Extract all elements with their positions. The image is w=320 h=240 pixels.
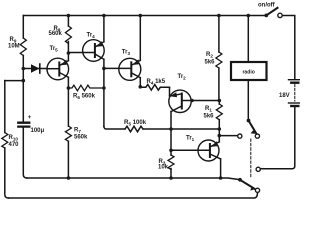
svg-text:18V: 18V [279,93,290,99]
svg-text:R10: R10 [9,135,19,142]
svg-text:560k: 560k [74,135,88,141]
svg-text:+: + [28,115,32,121]
svg-text:Tr4: Tr4 [87,33,96,40]
svg-text:560k: 560k [49,31,63,37]
svg-text:470: 470 [9,142,20,148]
svg-text:R1: R1 [205,106,212,113]
svg-text:Tr2: Tr2 [178,74,187,81]
svg-text:5k6: 5k6 [204,114,215,120]
svg-text:R7: R7 [74,128,81,135]
svg-text:R4 1k5: R4 1k5 [147,79,166,86]
svg-text:Tr5: Tr5 [50,46,59,53]
svg-text:Tr1: Tr1 [186,136,195,143]
svg-text:R6 560k: R6 560k [73,94,96,101]
svg-text:10k: 10k [158,164,169,170]
svg-text:5k6: 5k6 [205,60,216,66]
svg-text:on/off: on/off [258,2,276,8]
svg-text:100μ: 100μ [31,128,45,134]
svg-text:R5 100k: R5 100k [124,119,147,127]
svg-text:Tr3: Tr3 [122,50,131,57]
svg-text:radio: radio [242,70,254,76]
svg-text:10M: 10M [8,44,20,50]
svg-text:R2: R2 [206,52,213,59]
